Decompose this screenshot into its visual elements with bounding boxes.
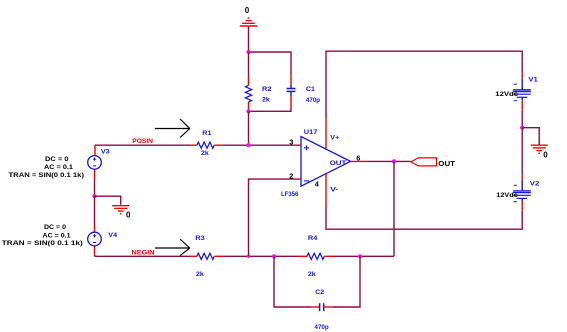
- svg-text:V-: V-: [330, 186, 338, 193]
- svg-text:V1: V1: [528, 77, 538, 84]
- svg-text:V2: V2: [530, 181, 540, 188]
- wire node A to C1 top: [249, 52, 292, 75]
- ground 0 (right): [531, 145, 548, 153]
- wire to ground 3: [522, 128, 539, 145]
- resistor R2: [245, 52, 251, 111]
- svg-text:V4: V4: [108, 232, 117, 239]
- wire node B to node C: [248, 111, 250, 145]
- port OUT: [411, 158, 437, 166]
- node A (R2/C1 top junction): [246, 50, 250, 54]
- svg-text:470p: 470p: [315, 324, 329, 331]
- wire feedback vertical: [393, 161, 395, 256]
- svg-text:3: 3: [289, 137, 293, 146]
- voltage source V3: [88, 145, 102, 179]
- svg-text:R2: R2: [262, 86, 272, 93]
- wire V3 to mid junction: [94, 179, 96, 196]
- svg-text:V+: V+: [330, 135, 339, 142]
- wire V+ rail: [326, 51, 522, 117]
- wire V- rail: [326, 206, 522, 229]
- node V1/V2 ground junction: [520, 126, 524, 130]
- wire mid junction to V2: [521, 128, 523, 175]
- pin 2 stub: [296, 178, 302, 180]
- dc source V2: [513, 175, 531, 211]
- svg-text:V3: V3: [101, 148, 110, 155]
- node OUT junction: [392, 159, 396, 163]
- wire NEGIN row: [95, 255, 191, 257]
- svg-text:U17: U17: [304, 129, 318, 136]
- ground 0 (top, net 0): [240, 18, 257, 26]
- arrow (NEGIN): [155, 239, 190, 255]
- svg-text:TRAN = SIN(0 0.1 1k): TRAN = SIN(0 0.1 1k): [9, 172, 85, 179]
- svg-text:470p: 470p: [306, 97, 320, 104]
- resistor R4: [298, 253, 333, 259]
- svg-text:DC = 0: DC = 0: [44, 224, 66, 231]
- arrow (POSIN): [155, 119, 190, 138]
- svg-text:R4: R4: [308, 235, 318, 242]
- ground 0 (left mid): [112, 206, 129, 214]
- svg-text:0: 0: [543, 150, 548, 159]
- node inverting-net/R3 junction: [247, 255, 250, 258]
- wire op-amp output: [351, 160, 411, 162]
- wire R1 to op-amp pin 3: [223, 144, 296, 146]
- svg-text:OUT: OUT: [330, 160, 347, 167]
- wire inverting input net (pin2): [249, 179, 296, 256]
- svg-text:TRAN = SIN(0 0.1 1k): TRAN = SIN(0 0.1 1k): [2, 240, 83, 247]
- svg-text:12Vdc: 12Vdc: [495, 91, 518, 98]
- wire C2 loop: [274, 256, 312, 307]
- svg-text:2k: 2k: [262, 97, 270, 104]
- svg-text:2k: 2k: [196, 271, 204, 278]
- svg-text:2k: 2k: [201, 150, 209, 157]
- svg-text:AC = 0.1: AC = 0.1: [43, 232, 71, 239]
- capacitor C2: [312, 303, 333, 311]
- svg-text:AC = 0.1: AC = 0.1: [44, 164, 73, 171]
- voltage source V4: [88, 226, 102, 257]
- svg-text:C1: C1: [306, 86, 315, 93]
- svg-text:OUT: OUT: [438, 161, 456, 168]
- wire to ground 2: [95, 196, 121, 205]
- wire R3 to R4: [223, 255, 298, 257]
- pin 3 stub: [296, 144, 302, 146]
- node C (noninverting input junction): [246, 143, 250, 147]
- wire ground0 to node A: [248, 27, 250, 52]
- node V3/V4 ground junction: [92, 194, 96, 198]
- svg-text:R3: R3: [195, 235, 205, 242]
- svg-text:POSIN: POSIN: [132, 138, 153, 145]
- svg-text:0: 0: [245, 6, 250, 15]
- node C2 left junction: [272, 254, 276, 258]
- wire R4 to feedback corner: [333, 255, 394, 257]
- svg-text:0: 0: [126, 211, 131, 220]
- svg-text:2: 2: [289, 171, 293, 180]
- svg-text:2k: 2k: [308, 271, 316, 278]
- resistor R1: [190, 142, 223, 148]
- op-amp U17: [301, 118, 351, 207]
- wire POSIN row: [95, 144, 190, 146]
- resistor R3: [190, 253, 223, 259]
- wire V1 to mid junction: [521, 111, 523, 128]
- svg-text:R1: R1: [202, 130, 212, 137]
- svg-text:DC = 0: DC = 0: [45, 156, 69, 163]
- svg-text:NEGIN: NEGIN: [132, 249, 155, 256]
- svg-text:4: 4: [315, 180, 320, 189]
- wire C1 bottom to node B: [249, 108, 292, 112]
- wire mid junction to V4: [94, 196, 96, 225]
- svg-text:12Vdc: 12Vdc: [496, 192, 518, 199]
- dc source V1: [513, 73, 531, 110]
- node R4/C2/feedback junction: [358, 254, 362, 258]
- svg-text:C2: C2: [315, 289, 324, 296]
- capacitor C1: [287, 75, 296, 108]
- svg-text:LF356: LF356: [281, 191, 299, 198]
- wire C2 right to R4 right: [332, 256, 360, 307]
- node B (R2/C1 bottom junction): [246, 109, 250, 113]
